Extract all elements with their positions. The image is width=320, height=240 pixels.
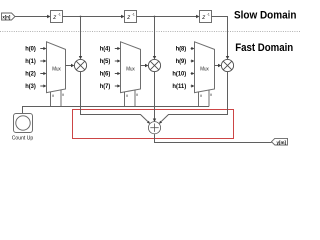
wire h(8) into mux U3 [190,48,193,50]
mux U2 [121,42,141,93]
svg-text:h(8): h(8) [176,46,187,53]
wire h(5) into mux U2 [115,60,118,62]
svg-text:h(5): h(5) [100,58,111,65]
wire M1 product to adder [81,72,148,122]
svg-text:h(3): h(3) [25,83,36,90]
svg-text:h(11): h(11) [172,83,186,90]
svg-text:Mux: Mux [52,66,61,72]
svg-text:h(7): h(7) [100,83,111,90]
svg-text:z: z [126,15,130,21]
adder A1 [148,122,160,134]
wire M3 product to adder [161,72,227,122]
multiplier M2 [148,59,160,71]
svg-text:-1: -1 [132,13,135,17]
svg-text:Count Up: Count Up [12,135,34,141]
output port y[m] [272,138,288,145]
svg-text:Fast Domain: Fast Domain [235,42,293,54]
wire Z1 to Z2 [63,16,122,18]
wire h(9) into mux U3 [190,60,193,62]
wire input to Z1 [15,16,48,18]
mux U1 [47,42,66,93]
delay block Z2 z^-1 [125,11,137,23]
wire h(4) into mux U2 [115,48,118,50]
delay block Z1 z^-1 [51,11,63,23]
svg-text:Mux: Mux [126,66,135,72]
counter block Count Up [12,114,34,142]
domain separator dashed line [0,31,300,33]
delay block Z3 z^-1 [200,11,212,23]
wire mux U3 to multiplier M3 [215,65,219,67]
svg-text:h(4): h(4) [100,46,111,53]
node tap1 junction [80,16,82,18]
svg-text:x[n]: x[n] [2,15,10,21]
wire h(7) into mux U2 [115,85,118,87]
wire h(10) into mux U3 [190,73,193,75]
wire h(3) into mux U1 [40,85,43,87]
svg-text:z: z [201,15,205,21]
wire Z2 to Z3 [137,16,197,18]
wire Z3 to multiplier M3 [212,17,228,57]
node tap2 junction [154,16,156,18]
wire tap2 down to multiplier M2 [154,17,156,57]
multiplier M1 [74,59,86,71]
multiplier M3 [221,59,233,71]
svg-text:-1: -1 [207,13,210,17]
svg-text:h(1): h(1) [25,58,36,65]
wire mux U1 to multiplier M1 [66,65,72,67]
wire select line from counter to muxes [23,107,210,114]
mux U1 select stubs [51,90,62,107]
mux U3 [195,42,215,93]
wire h(2) into mux U1 [40,73,43,75]
svg-text:h(6): h(6) [100,71,111,78]
wire tap1 down to multiplier M1 [80,17,82,57]
wire h(0) into mux U1 [40,48,43,50]
wire adder to output port [155,134,272,142]
svg-text:h(10): h(10) [172,71,186,78]
wire mux U2 to multiplier M2 [141,65,146,67]
svg-text:-1: -1 [58,13,61,17]
svg-text:z: z [52,15,56,21]
wire M2 product to adder [154,72,156,119]
mux U2 select stubs [125,90,136,107]
svg-text:Slow Domain: Slow Domain [234,9,297,21]
svg-text:y[m]: y[m] [277,140,287,146]
svg-text:h(2): h(2) [25,71,36,78]
svg-text:h(0): h(0) [25,46,36,53]
wire h(11) into mux U3 [190,85,193,87]
svg-text:h(9): h(9) [176,58,187,65]
mux U3 select stubs [199,90,210,107]
highlight box red region [73,110,234,139]
wire h(1) into mux U1 [40,60,43,62]
input port x[n] [2,13,16,21]
wire h(6) into mux U2 [115,73,118,75]
svg-text:Mux: Mux [200,66,209,72]
